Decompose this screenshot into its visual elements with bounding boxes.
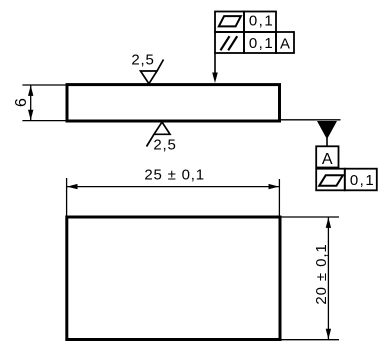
svg-text:A: A [280, 35, 290, 52]
svg-text:0,1: 0,1 [249, 12, 274, 29]
svg-text:6: 6 [13, 98, 30, 107]
svg-text:0,1: 0,1 [350, 172, 375, 189]
svg-text:2,5: 2,5 [131, 52, 154, 69]
svg-text:20 ± 0,1: 20 ± 0,1 [313, 243, 330, 304]
svg-text:0,1: 0,1 [249, 35, 274, 52]
svg-text:25 ± 0,1: 25 ± 0,1 [144, 167, 205, 184]
svg-text:A: A [322, 151, 333, 168]
svg-text:2,5: 2,5 [153, 136, 176, 153]
